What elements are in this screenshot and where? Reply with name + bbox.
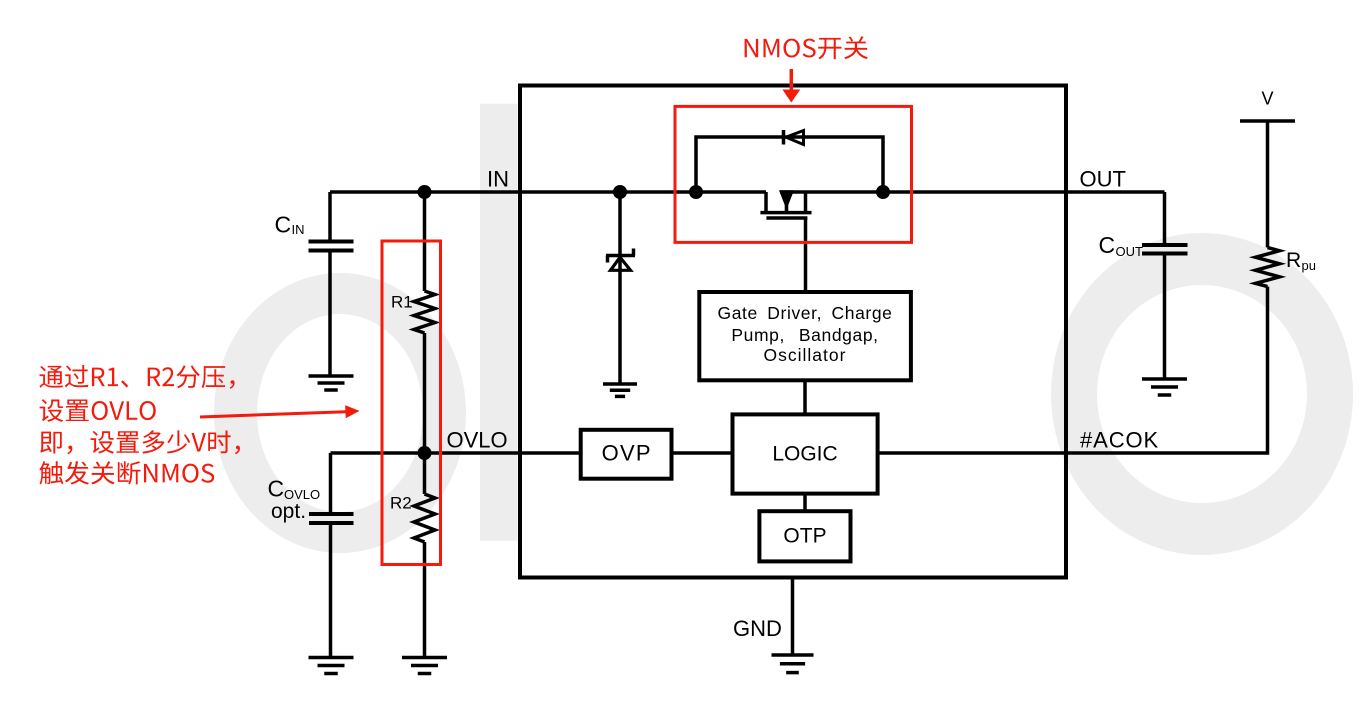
svg-text:C: C <box>1099 232 1116 258</box>
svg-text:R: R <box>1286 249 1301 272</box>
svg-text:R2: R2 <box>390 494 412 513</box>
svg-text:GND: GND <box>733 616 782 641</box>
svg-text:opt.: opt. <box>271 500 306 523</box>
svg-text:Pump, Bandgap,: Pump, Bandgap, <box>731 325 878 345</box>
svg-text:#ACOK: #ACOK <box>1080 428 1159 453</box>
svg-text:IN: IN <box>292 222 305 237</box>
svg-text:OUT: OUT <box>1080 167 1126 192</box>
svg-text:OVP: OVP <box>602 441 652 466</box>
svg-text:V: V <box>1261 89 1273 109</box>
svg-text:OVLO: OVLO <box>447 428 508 453</box>
svg-text:pu: pu <box>1302 258 1316 273</box>
svg-text:C: C <box>275 212 292 238</box>
svg-text:Oscillator: Oscillator <box>764 345 847 365</box>
svg-text:Gate Driver, Charge: Gate Driver, Charge <box>717 303 892 323</box>
svg-text:C: C <box>268 476 285 502</box>
svg-text:LOGIC: LOGIC <box>772 443 837 466</box>
svg-text:OTP: OTP <box>783 525 826 548</box>
svg-text:R1: R1 <box>391 293 413 312</box>
svg-text:OUT: OUT <box>1116 244 1144 259</box>
svg-text:IN: IN <box>487 167 509 192</box>
